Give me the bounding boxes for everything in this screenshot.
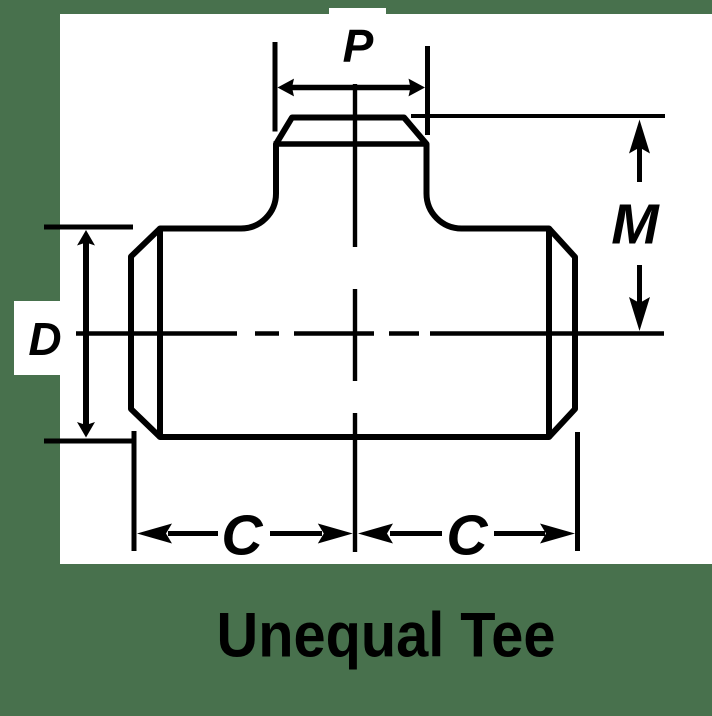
dimension C left extension line — [132, 431, 137, 551]
dimension P arrowhead right — [409, 79, 426, 97]
svg-text:D: D — [28, 313, 61, 365]
left end bevel face — [131, 229, 160, 438]
dimension C left arrowhead right — [318, 524, 353, 544]
dimension P extension line left — [273, 42, 278, 132]
dimension M upper arrow — [637, 147, 642, 182]
dimension M lower arrow — [637, 265, 642, 304]
dimension C right extension line — [575, 432, 580, 551]
horizontal center line — [76, 331, 664, 335]
dimension C right arrowhead right — [540, 524, 575, 544]
tee body outline — [160, 118, 549, 438]
dimension M upper arrowhead — [629, 120, 650, 154]
svg-text:Unequal Tee: Unequal Tee — [217, 601, 556, 671]
dimension D arrow line — [83, 242, 89, 425]
dimension D top tick line — [44, 225, 133, 230]
dimension C left arrow line a — [168, 531, 218, 536]
dimension C left arrowhead left — [137, 524, 172, 544]
dimension D bottom tick line — [44, 439, 134, 444]
dimension C left arrow line b — [270, 531, 322, 536]
dimension M top tick line — [411, 114, 665, 118]
dimension C right arrow line a — [390, 531, 442, 536]
dimension D arrowhead down — [77, 422, 95, 438]
right end bevel face — [549, 229, 575, 438]
white main diagram panel — [60, 14, 712, 564]
dimension C right arrowhead left — [358, 524, 393, 544]
white top notch panel — [329, 8, 386, 16]
svg-text:P: P — [343, 20, 374, 72]
dimension P extension line right — [425, 46, 430, 135]
dimension C right arrow line b — [494, 531, 545, 536]
dimension P arrow line — [290, 85, 413, 91]
dimension D arrowhead up — [77, 230, 95, 246]
svg-text:M: M — [611, 193, 660, 257]
svg-text:C: C — [446, 504, 488, 568]
svg-text:C: C — [221, 504, 263, 568]
dimension M lower arrowhead — [629, 297, 650, 331]
white left notch panel (D label box) — [14, 301, 61, 375]
branch bevel base line — [274, 141, 428, 147]
vertical center line — [353, 84, 357, 552]
dimension P arrowhead left — [278, 79, 295, 97]
